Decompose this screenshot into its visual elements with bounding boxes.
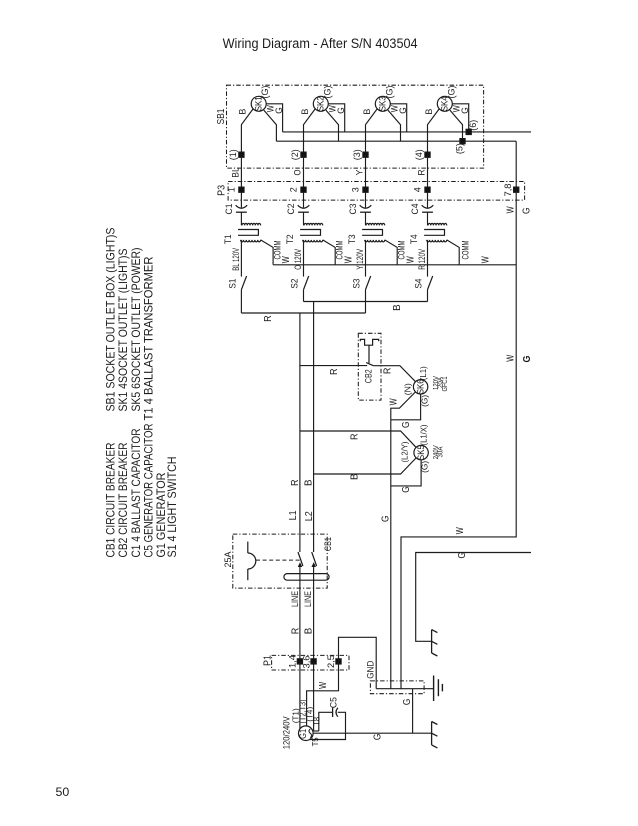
pin 3,6 of P1	[311, 659, 316, 664]
svg-text:G: G	[401, 421, 412, 428]
svg-text:SK1 4SOCKET OUTLET (LIGHT)S: SK1 4SOCKET OUTLET (LIGHT)S	[116, 248, 130, 411]
svg-text:C3: C3	[348, 204, 358, 215]
svg-text:BL: BL	[230, 167, 240, 178]
svg-text:(3): (3)	[352, 149, 362, 160]
wire C5 to T5	[310, 712, 346, 739]
wire COMM of T1	[261, 240, 274, 265]
svg-text:G: G	[460, 107, 470, 114]
svg-text:R: R	[263, 315, 274, 322]
chassis ground lower	[431, 722, 433, 745]
wire B of SK2	[304, 109, 316, 155]
svg-text:W: W	[480, 256, 491, 263]
svg-text:B: B	[300, 109, 310, 115]
wire W neutral to generator	[307, 661, 339, 726]
wire W neutral to GND	[339, 637, 377, 688]
svg-text:G1: G1	[298, 729, 308, 739]
breaker coil CB1	[247, 542, 249, 553]
bus B (S2,S4)	[304, 301, 428, 303]
connector P3 (dashed)	[228, 182, 524, 201]
circuit breaker CB1 (dashed box)	[233, 534, 327, 588]
svg-text:(G): (G)	[322, 86, 332, 99]
wire W of SK1	[264, 110, 277, 141]
svg-text:B: B	[392, 304, 403, 311]
breaker pole B of CB1	[312, 552, 317, 566]
wire W of SK3	[388, 110, 401, 141]
wire O to P3 pin 2	[303, 155, 305, 208]
ballast transformer T4	[427, 212, 429, 225]
pin (1) of SB1	[239, 152, 244, 157]
breaker element CB2	[360, 339, 378, 345]
svg-text:(4): (4)	[414, 149, 424, 160]
wire G of SK6	[391, 394, 421, 420]
svg-text:G: G	[402, 698, 413, 705]
svg-text:COMM: COMM	[461, 241, 471, 260]
svg-text:T5: T5	[310, 737, 320, 746]
svg-text:W: W	[343, 256, 354, 263]
svg-text:(5): (5)	[455, 143, 465, 154]
wire B of SK3	[366, 109, 378, 155]
svg-text:(G): (G)	[384, 86, 394, 99]
wire B of SK1	[241, 109, 253, 155]
COMM bus to W	[273, 264, 516, 266]
wire G GND to frame	[412, 689, 414, 734]
svg-text:3: 3	[351, 187, 361, 192]
svg-text:B: B	[362, 109, 372, 115]
socket outlet SK4	[437, 96, 452, 111]
wire W return	[401, 141, 516, 689]
svg-text:1,4: 1,4	[288, 655, 298, 668]
svg-text:G: G	[401, 486, 412, 493]
wire COMM of T2	[323, 240, 336, 265]
pin (5) of SB1	[460, 139, 465, 144]
svg-text:G: G	[274, 107, 284, 114]
wire G of SK1	[266, 104, 282, 132]
svg-text:Wiring Diagram - After S/N 403: Wiring Diagram - After S/N 403504	[223, 36, 418, 52]
breaker pole R of CB1	[298, 552, 303, 566]
wire W of SK4	[450, 110, 463, 141]
svg-text:R: R	[329, 368, 340, 375]
svg-text:2,5: 2,5	[326, 655, 336, 668]
svg-text:25A: 25A	[223, 551, 233, 568]
svg-text:B: B	[303, 479, 314, 486]
socket outlet SK2	[313, 96, 328, 111]
wire G from sockets to GND	[390, 420, 392, 689]
socket outlet SK1	[251, 96, 266, 111]
light switch S3	[366, 276, 371, 290]
chassis ground upper	[431, 630, 433, 653]
wire R secondary of T4	[427, 240, 429, 277]
wire LINE B	[313, 566, 315, 661]
wire G of SK5	[391, 460, 421, 486]
svg-text:B: B	[424, 109, 434, 115]
capacitor C5	[332, 708, 334, 717]
svg-text:R: R	[416, 169, 426, 175]
svg-text:C4: C4	[410, 204, 420, 215]
svg-text:1: 1	[227, 187, 237, 192]
capacitor C1	[236, 205, 248, 208]
socket outlet box SB1 (dashed)	[227, 85, 484, 168]
wire T8 to C5	[319, 712, 333, 731]
svg-text:L1: L1	[288, 510, 299, 520]
svg-text:B: B	[350, 473, 361, 480]
svg-text:CB2: CB2	[364, 369, 374, 383]
ballast transformer T3	[365, 212, 367, 225]
ballast transformer T2	[303, 212, 305, 225]
svg-text:SK6: SK6	[416, 379, 426, 394]
capacitor C4	[422, 205, 434, 208]
svg-text:T1: T1	[223, 234, 233, 244]
svg-text:G: G	[457, 552, 468, 559]
wire R to CB2	[300, 365, 367, 367]
svg-text:O: O	[292, 170, 302, 176]
pin 1,4 of P1	[297, 659, 302, 664]
svg-text:(G): (G)	[420, 395, 430, 407]
socket outlet SK6	[413, 380, 427, 394]
svg-text:B: B	[304, 627, 315, 634]
wire B to generator (T4)	[313, 661, 315, 731]
svg-text:(L1/X): (L1/X)	[418, 424, 428, 445]
svg-text:S4: S4	[414, 279, 424, 289]
svg-text:G: G	[380, 515, 391, 522]
svg-text:C2: C2	[286, 204, 296, 215]
svg-text:W: W	[506, 206, 517, 213]
pin 7,8 of P3	[514, 187, 519, 192]
svg-text:T4: T4	[409, 234, 419, 244]
light switch S4	[428, 276, 433, 290]
svg-text:W: W	[388, 398, 399, 405]
socket outlet SK3	[375, 96, 390, 111]
svg-text:(N): (N)	[403, 383, 413, 395]
svg-text:Y: Y	[354, 170, 364, 176]
svg-text:T2: T2	[285, 234, 295, 244]
svg-text:S1: S1	[227, 279, 237, 289]
svg-text:30A: 30A	[438, 446, 445, 457]
svg-text:L2: L2	[304, 511, 315, 521]
generator G1	[299, 726, 314, 741]
svg-text:LINE: LINE	[303, 591, 313, 607]
svg-text:CB2 CIRCUIT BREAKER: CB2 CIRCUIT BREAKER	[116, 442, 130, 557]
svg-text:(L1): (L1)	[418, 366, 428, 380]
svg-text:R: R	[290, 628, 301, 635]
svg-text:G: G	[522, 207, 533, 214]
svg-text:W: W	[455, 527, 466, 534]
pin 3 of P3	[363, 187, 368, 192]
wire G of SK2	[328, 104, 344, 132]
svg-text:(6): (6)	[468, 120, 478, 131]
svg-text:R: R	[382, 368, 393, 375]
pin (6) of SB1	[466, 129, 471, 134]
wire R drop	[299, 313, 301, 552]
svg-text:4: 4	[413, 187, 423, 192]
svg-text:C1: C1	[224, 204, 234, 215]
svg-text:G: G	[336, 107, 346, 114]
wire G of SK4	[452, 104, 468, 132]
svg-text:SB1: SB1	[216, 108, 227, 124]
svg-text:LINE: LINE	[290, 591, 300, 607]
wire Y secondary of T3	[365, 240, 367, 277]
socket outlet SK5	[414, 445, 428, 459]
wire B drop	[313, 302, 315, 553]
svg-text:O 120V: O 120V	[293, 248, 303, 270]
ballast transformer T1	[240, 212, 242, 225]
GND bus	[376, 688, 433, 690]
wire O secondary of T2	[303, 240, 305, 277]
wire Y to P3 pin 3	[365, 155, 367, 208]
light switch S2	[304, 276, 309, 290]
svg-text:C5: C5	[329, 697, 339, 708]
svg-text:G: G	[522, 355, 533, 362]
pin 4 of P3	[425, 187, 430, 192]
pin 1 of P3	[239, 187, 244, 192]
svg-text:W: W	[405, 256, 416, 263]
wire B to SK5	[314, 458, 416, 474]
wire W of SK2	[326, 110, 339, 141]
svg-text:W: W	[318, 681, 329, 688]
svg-text:G: G	[373, 733, 384, 740]
svg-text:(2): (2)	[290, 149, 300, 160]
wire BL to P3 pin 1	[240, 155, 242, 208]
pin 2 of P3	[301, 187, 306, 192]
svg-text:B: B	[238, 109, 248, 115]
wire R to SK5	[300, 431, 416, 447]
svg-text:50: 50	[56, 785, 70, 799]
svg-text:W: W	[506, 354, 517, 361]
svg-text:GFC1: GFC1	[442, 376, 449, 391]
wire COMM of T4	[447, 240, 460, 265]
capacitor C2	[298, 205, 310, 208]
GND terminal box (dashed)	[370, 681, 424, 694]
svg-text:R 120V: R 120V	[417, 248, 427, 270]
pin 2,5 of P1	[336, 659, 341, 664]
wire R to P3 pin 4	[427, 155, 429, 208]
wire N of SK6	[391, 392, 416, 420]
pin (2) of SB1	[301, 152, 306, 157]
svg-text:T1 4 BALLAST TRANSFORMER: T1 4 BALLAST TRANSFORMER	[141, 256, 155, 420]
svg-text:2: 2	[289, 187, 299, 192]
circuit breaker CB2 (dashed box)	[358, 333, 381, 400]
breaker handle tie	[284, 574, 329, 581]
svg-text:P1: P1	[263, 655, 274, 666]
svg-text:SK5: SK5	[416, 445, 426, 460]
svg-text:3,6: 3,6	[301, 656, 311, 669]
svg-text:Y 120V: Y 120V	[355, 248, 365, 270]
wire G of SK3	[390, 104, 406, 132]
wire G right run	[416, 553, 531, 642]
pin (4) of SB1	[425, 152, 430, 157]
wire LINE R	[299, 566, 301, 661]
svg-text:W: W	[281, 256, 292, 263]
svg-text:BL 120V: BL 120V	[231, 247, 241, 271]
svg-text:CB1: CB1	[323, 537, 333, 551]
svg-text:(1): (1)	[228, 149, 238, 160]
svg-text:S1 4 LIGHT SWITCH: S1 4 LIGHT SWITCH	[165, 457, 179, 558]
pin (3) of SB1	[363, 152, 368, 157]
svg-text:T3: T3	[347, 234, 357, 244]
svg-text:7,8: 7,8	[503, 184, 513, 197]
connector P1 (dashed)	[272, 655, 349, 670]
breaker linkage (dashed)	[256, 559, 302, 561]
svg-text:(G): (G)	[446, 86, 456, 99]
svg-text:R: R	[350, 433, 361, 440]
wire G generator frame	[313, 732, 432, 734]
svg-text:T8: T8	[311, 717, 321, 726]
bus R (S1,S3)	[241, 312, 365, 314]
ground bus G (to pin 6)	[283, 131, 531, 133]
svg-text:S3: S3	[352, 279, 362, 289]
svg-text:(L2/Y): (L2/Y)	[399, 441, 409, 462]
svg-text:(G): (G)	[260, 86, 270, 99]
earth ground	[433, 676, 435, 702]
wire B of SK4	[428, 109, 440, 155]
neutral bus W (to pin 5)	[276, 140, 516, 142]
light switch S1	[241, 276, 246, 290]
wire R from CB2 to SK6	[373, 366, 415, 382]
svg-text:GND: GND	[365, 660, 375, 678]
wire BL secondary of T1	[240, 240, 242, 277]
wire R to generator (T1)	[299, 661, 301, 728]
capacitor C3	[360, 205, 372, 208]
wire COMM of T3	[385, 240, 398, 265]
svg-text:G: G	[398, 107, 408, 114]
svg-text:S2: S2	[290, 279, 300, 289]
svg-text:R: R	[290, 480, 301, 487]
